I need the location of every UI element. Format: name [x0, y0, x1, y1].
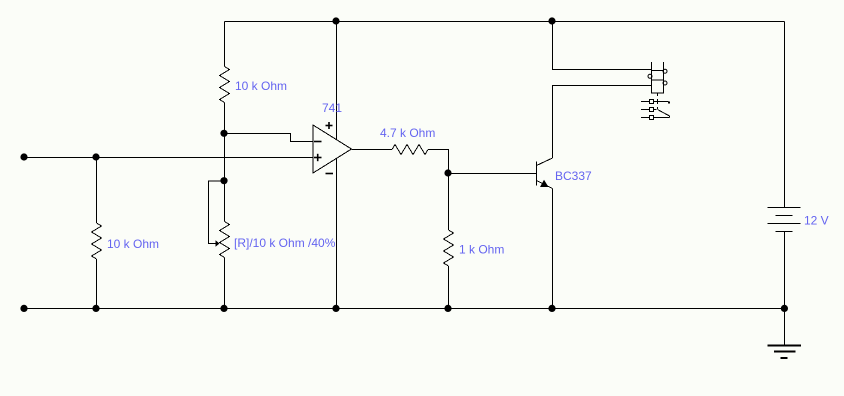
svg-text:12 V: 12 V — [804, 214, 829, 228]
svg-text:10 k Ohm: 10 k Ohm — [107, 237, 159, 251]
svg-text:BC337: BC337 — [555, 169, 592, 183]
svg-text:[R]/10 k Ohm /40%: [R]/10 k Ohm /40% — [234, 236, 336, 250]
svg-text:10 k Ohm: 10 k Ohm — [235, 79, 287, 93]
svg-text:741: 741 — [322, 101, 342, 115]
svg-text:1 k Ohm: 1 k Ohm — [459, 243, 504, 257]
svg-text:4.7 k Ohm: 4.7 k Ohm — [380, 126, 435, 140]
